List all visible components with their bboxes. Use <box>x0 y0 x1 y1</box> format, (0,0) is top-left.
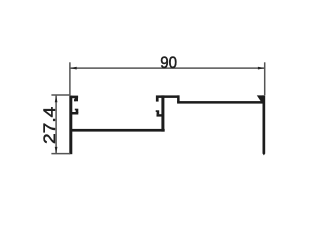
extension line bottom <box>51 153 70 155</box>
arrow up <box>55 96 58 103</box>
right top tab (bevel) <box>257 95 264 101</box>
left wall mid hook vertical <box>76 109 79 113</box>
bottom web <box>70 129 165 132</box>
middle wall left hook cap <box>156 110 157 112</box>
left wall mid hook horizontal <box>72 112 78 115</box>
dimension line <box>55 96 57 154</box>
middle top flange <box>156 95 180 98</box>
dimension 27.4 <box>51 95 70 154</box>
dimension line <box>70 67 265 69</box>
middle wall <box>161 95 164 131</box>
middle wall left hook horizontal <box>157 114 163 116</box>
middle wall left hook vertical <box>157 110 160 114</box>
text 27.4 rotated <box>40 107 59 144</box>
extension line right <box>264 62 266 95</box>
left wall mid hook cap <box>75 109 76 111</box>
svg-text:27.4: 27.4 <box>40 107 59 144</box>
dimension 90 <box>70 62 265 95</box>
right wall bottom taper <box>263 153 266 155</box>
arrow down <box>55 147 58 154</box>
svg-text:90: 90 <box>160 54 177 72</box>
extension line left <box>69 62 71 95</box>
long upper line right section <box>177 101 264 104</box>
step down <box>177 95 180 102</box>
right wall <box>263 95 266 153</box>
left top flange down-stub <box>75 98 78 102</box>
middle flange down-hook <box>156 98 159 102</box>
extension line top <box>51 94 70 96</box>
arrow left <box>70 67 77 70</box>
arrow right <box>258 67 265 70</box>
left wall <box>69 96 72 155</box>
aluminium profile cross-section, thick outline <box>69 95 265 155</box>
left top flange <box>70 96 79 99</box>
text 90 <box>160 54 177 72</box>
